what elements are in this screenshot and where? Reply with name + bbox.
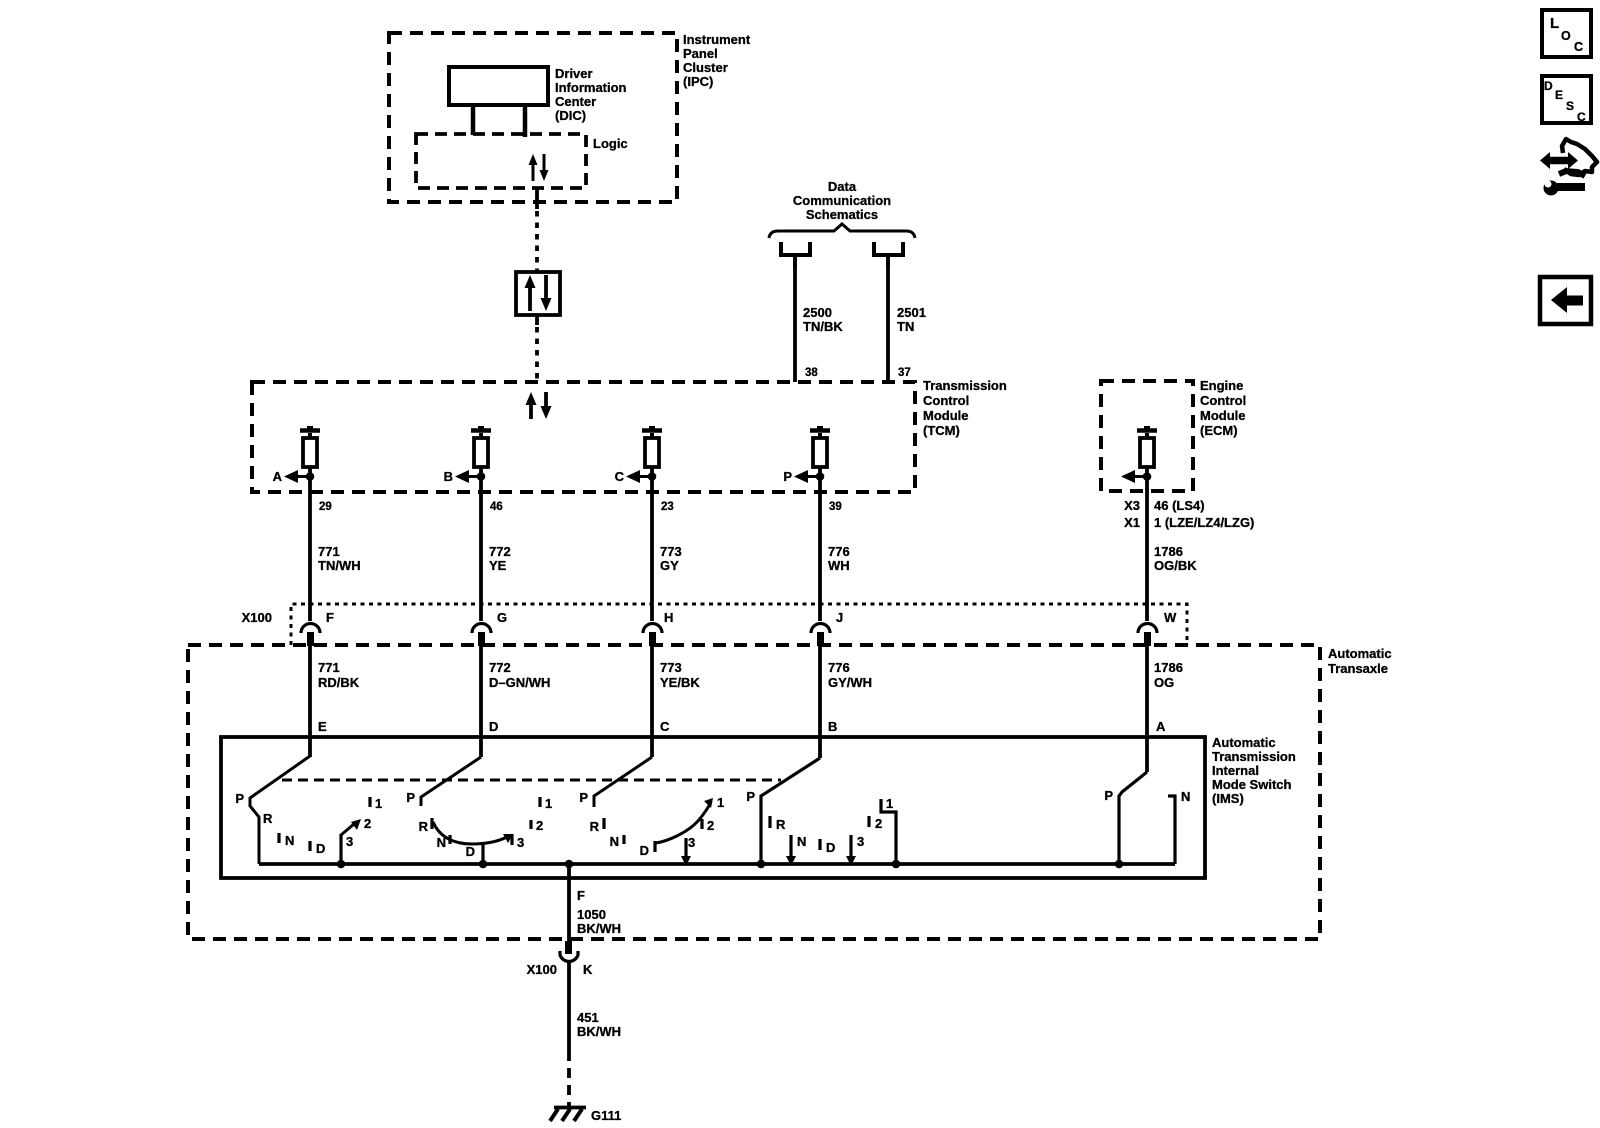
svg-text:D: D <box>1544 79 1553 93</box>
svg-text:TN/BK: TN/BK <box>803 319 843 334</box>
svg-text:46 (LS4): 46 (LS4) <box>1154 498 1205 513</box>
slice C contact N <box>622 835 625 844</box>
arrow to letter P <box>807 475 820 478</box>
svg-text:E: E <box>318 719 327 734</box>
svg-text:Module: Module <box>923 408 969 423</box>
svg-text:D: D <box>826 840 835 855</box>
svg-text:(DIC): (DIC) <box>555 108 586 123</box>
svg-text:N: N <box>437 835 446 850</box>
svg-text:772: 772 <box>489 544 511 559</box>
svg-text:GY: GY <box>660 558 679 573</box>
svg-text:1786: 1786 <box>1154 660 1183 675</box>
connector X100 pin G <box>472 624 491 634</box>
brace over data wires <box>769 224 915 238</box>
ECM: Engine Control Module dashed box <box>1101 381 1193 491</box>
wire 772 D-GN/WH from X100 G to IMS D <box>479 646 483 737</box>
wire 451 BK/WH <box>567 963 571 1051</box>
svg-text:Transmission: Transmission <box>1212 749 1296 764</box>
svg-text:771: 771 <box>318 660 340 675</box>
svg-text:Schematics: Schematics <box>806 207 878 222</box>
svg-text:BK/WH: BK/WH <box>577 921 621 936</box>
stub wire 2501 <box>886 255 890 268</box>
wire: solid stub below connector box <box>535 315 539 325</box>
svg-text:Mode Switch: Mode Switch <box>1212 777 1292 792</box>
IMS switch slice B: wire drop <box>818 737 822 758</box>
TCM pin driver B <box>478 426 484 430</box>
icon: schematic jump arrow with wrench <box>1540 139 1597 196</box>
wire 2501 TN to TCM pin 37 <box>886 268 890 382</box>
svg-text:(TCM): (TCM) <box>923 423 960 438</box>
svg-text:X100: X100 <box>242 610 272 625</box>
svg-text:A: A <box>273 469 283 484</box>
arrow at ECM pin <box>1134 475 1147 478</box>
svg-text:3: 3 <box>517 835 524 850</box>
wire 2500 TN/BK to TCM pin 38 <box>793 268 797 382</box>
svg-text:YE/BK: YE/BK <box>660 675 700 690</box>
wire 773 from pin C to X100 <box>650 467 654 621</box>
TCM pin driver P <box>817 426 823 430</box>
slice E contact D <box>308 841 311 851</box>
svg-text:C: C <box>660 719 670 734</box>
slice B contact N with leg to bus <box>789 835 792 858</box>
svg-text:Cluster: Cluster <box>683 60 728 75</box>
svg-text:Instrument: Instrument <box>683 32 751 47</box>
svg-text:X1: X1 <box>1124 515 1140 530</box>
svg-text:(IMS): (IMS) <box>1212 791 1244 806</box>
svg-text:N: N <box>1181 789 1190 804</box>
svg-text:P: P <box>579 790 588 805</box>
svg-text:RD/BK: RD/BK <box>318 675 360 690</box>
svg-text:GY/WH: GY/WH <box>828 675 872 690</box>
up arrow in Logic box <box>532 163 535 181</box>
ground G111 symbol <box>554 1106 586 1110</box>
svg-text:Engine: Engine <box>1200 378 1243 393</box>
slice E contact N <box>277 833 280 843</box>
Automatic Transaxle dashed box <box>188 645 1320 939</box>
svg-text:Driver: Driver <box>555 66 593 81</box>
slice B contact 1 leg to bus <box>881 799 896 864</box>
wire DIC leg left <box>471 105 476 135</box>
DIC: Driver Information Center box <box>449 67 548 105</box>
slice D leg to bus <box>481 843 484 864</box>
svg-text:J: J <box>836 610 843 625</box>
svg-text:29: 29 <box>319 501 332 513</box>
node on ECM wire <box>1143 472 1152 481</box>
svg-text:39: 39 <box>829 501 842 513</box>
wire 776 from pin P to X100 <box>818 467 822 621</box>
svg-text:776: 776 <box>828 544 850 559</box>
svg-text:D: D <box>640 843 649 858</box>
svg-text:3: 3 <box>346 834 353 849</box>
dashed wire to ground <box>567 1051 571 1106</box>
svg-text:P: P <box>783 469 792 484</box>
svg-text:2: 2 <box>875 816 882 831</box>
IMS switch slice A: wire drop <box>1145 737 1149 772</box>
svg-text:W: W <box>1164 610 1177 625</box>
svg-text:H: H <box>664 610 673 625</box>
svg-text:G: G <box>497 610 507 625</box>
TCM pin driver A <box>307 426 313 430</box>
slice A contact N with leg to bus <box>1168 796 1175 864</box>
svg-text:D: D <box>466 844 475 859</box>
svg-text:N: N <box>610 834 619 849</box>
slice D contact N <box>448 835 451 844</box>
IMS ground bus <box>259 862 1175 866</box>
slice E leg to bus <box>339 834 342 864</box>
arrow to letter A <box>297 475 310 478</box>
svg-text:C: C <box>1577 110 1586 124</box>
wire 771 from pin A to X100 <box>308 467 312 621</box>
svg-text:Transmission: Transmission <box>923 378 1007 393</box>
svg-text:Data: Data <box>828 179 857 194</box>
wire 771 RD/BK from X100 F to IMS E <box>308 646 312 737</box>
svg-text:O: O <box>1561 29 1571 43</box>
connector X100 pin K <box>565 941 572 954</box>
svg-text:(IPC): (IPC) <box>683 74 713 89</box>
node on wire B <box>477 472 486 481</box>
svg-text:772: 772 <box>489 660 511 675</box>
svg-text:P: P <box>406 790 415 805</box>
svg-text:D: D <box>489 719 498 734</box>
svg-text:2: 2 <box>364 816 371 831</box>
connector X100 pin W <box>1138 624 1157 634</box>
svg-text:Center: Center <box>555 94 596 109</box>
svg-text:S: S <box>1566 99 1574 113</box>
svg-text:2500: 2500 <box>803 305 832 320</box>
up arrow in connector box <box>528 287 532 311</box>
svg-text:38: 38 <box>805 367 818 379</box>
svg-text:Communication: Communication <box>793 193 891 208</box>
down arrow in Logic box <box>543 154 546 172</box>
svg-text:E: E <box>1555 88 1563 102</box>
svg-text:N: N <box>797 834 806 849</box>
svg-text:F: F <box>577 888 585 903</box>
slice B contact D <box>818 839 821 850</box>
svg-text:Automatic: Automatic <box>1212 735 1276 750</box>
IMS switch slice C: wire drop <box>650 737 654 757</box>
svg-text:2: 2 <box>536 818 543 833</box>
IMS: Automatic Transmission Internal Mode Switch box <box>221 737 1205 878</box>
svg-text:F: F <box>326 610 334 625</box>
svg-text:B: B <box>828 719 837 734</box>
svg-text:773: 773 <box>660 660 682 675</box>
svg-text:L: L <box>1550 15 1559 32</box>
svg-text:2: 2 <box>707 818 714 833</box>
svg-text:Control: Control <box>923 393 969 408</box>
svg-text:P: P <box>1104 788 1113 803</box>
icon: DESC box <box>1542 76 1591 123</box>
svg-text:X100: X100 <box>527 962 557 977</box>
connector X100 pin F <box>301 624 320 634</box>
connector X100 pin H <box>643 624 662 634</box>
arrow to letter C <box>639 475 652 478</box>
IMS switch slice D: wire drop <box>479 737 483 757</box>
svg-text:(ECM): (ECM) <box>1200 423 1238 438</box>
svg-text:A: A <box>1156 719 1166 734</box>
svg-text:1786: 1786 <box>1154 544 1183 559</box>
svg-text:1: 1 <box>886 796 893 811</box>
svg-text:Internal: Internal <box>1212 763 1259 778</box>
svg-text:R: R <box>263 811 273 826</box>
slice E contact 1 <box>368 797 371 807</box>
wire 776 GY/WH from X100 J to IMS B <box>818 646 822 737</box>
wire: dashed serial data link to TCM <box>535 327 539 382</box>
slice C leg to bus with arrow <box>684 838 687 858</box>
slice A wiper to P <box>1119 772 1147 864</box>
svg-text:R: R <box>419 819 429 834</box>
svg-text:YE: YE <box>489 558 507 573</box>
svg-text:451: 451 <box>577 1010 599 1025</box>
svg-text:Automatic: Automatic <box>1328 646 1392 661</box>
node: bus junction at F drop <box>565 860 574 869</box>
svg-text:771: 771 <box>318 544 340 559</box>
icon: back arrow box <box>1540 277 1591 324</box>
svg-text:3: 3 <box>688 835 695 850</box>
svg-text:1050: 1050 <box>577 907 606 922</box>
slice B wiper to P <box>761 758 820 864</box>
slice C wiper arc from D to 1 <box>656 802 711 843</box>
svg-text:1 (LZE/LZ4/LZG): 1 (LZE/LZ4/LZG) <box>1154 515 1254 530</box>
IMS switch slice E: wire drop <box>308 737 312 757</box>
down arrow inside TCM <box>544 392 548 407</box>
svg-text:Panel: Panel <box>683 46 718 61</box>
node on wire P <box>816 472 825 481</box>
svg-text:G111: G111 <box>591 1108 621 1123</box>
slice D wiper to P <box>421 757 481 806</box>
svg-text:TN: TN <box>897 319 914 334</box>
wire: dashed serial data link down <box>535 211 539 272</box>
svg-text:46: 46 <box>490 501 503 513</box>
svg-text:1: 1 <box>375 796 382 811</box>
wire 1786 from ECM to X100 <box>1145 467 1149 621</box>
node on wire C <box>648 472 657 481</box>
svg-text:Transaxle: Transaxle <box>1328 661 1388 676</box>
slice C wiper to P <box>594 757 652 807</box>
X100 inline connector dotted box <box>291 604 1187 645</box>
Logic dashed box <box>416 134 586 188</box>
svg-text:3: 3 <box>857 834 864 849</box>
wire 773 YE/BK from X100 H to IMS C <box>650 646 654 737</box>
svg-text:Information: Information <box>555 80 627 95</box>
svg-text:BK/WH: BK/WH <box>577 1024 621 1039</box>
svg-text:OG: OG <box>1154 675 1174 690</box>
svg-text:Control: Control <box>1200 393 1246 408</box>
svg-text:23: 23 <box>661 501 674 513</box>
wire DIC leg right <box>523 105 528 137</box>
TCM: Transmission Control Module dashed box <box>252 382 915 492</box>
slice D contact 3 <box>510 834 513 845</box>
slice D wiper arc from R to 3 <box>433 822 507 844</box>
icon: LOC box <box>1542 10 1591 57</box>
svg-text:OG/BK: OG/BK <box>1154 558 1197 573</box>
svg-text:776: 776 <box>828 660 850 675</box>
svg-text:D: D <box>316 841 325 856</box>
svg-text:1: 1 <box>545 796 552 811</box>
svg-text:Module: Module <box>1200 408 1246 423</box>
svg-text:P: P <box>235 791 244 806</box>
IPC: Instrument Panel Cluster dashed box <box>389 33 677 202</box>
slice E wiper to P <box>250 756 310 864</box>
arrow to letter B <box>468 475 481 478</box>
slice E contact 2 with pointer arm <box>341 824 354 835</box>
svg-text:R: R <box>776 817 786 832</box>
slice B contact 2 <box>867 816 870 827</box>
svg-text:WH: WH <box>828 558 850 573</box>
svg-text:TN/WH: TN/WH <box>318 558 361 573</box>
svg-text:B: B <box>444 469 453 484</box>
svg-text:Logic: Logic <box>593 136 628 151</box>
svg-text:D–GN/WH: D–GN/WH <box>489 675 550 690</box>
TCM pin driver C <box>649 426 655 430</box>
svg-text:R: R <box>590 819 600 834</box>
svg-text:P: P <box>746 789 755 804</box>
connector X100 pin J <box>811 624 830 634</box>
svg-text:C: C <box>615 469 625 484</box>
wire: solid stub below Logic box crossing IPC edge <box>535 188 539 209</box>
wire from bus through IMS pin F to transaxle edge <box>567 864 571 941</box>
serial data connector box with up/down arrows <box>516 272 560 315</box>
connector terminal 2501 (U shape) <box>874 242 903 255</box>
svg-text:K: K <box>583 962 593 977</box>
up arrow inside TCM <box>529 404 533 419</box>
svg-text:37: 37 <box>898 367 911 379</box>
stub wire 2500 <box>793 255 797 268</box>
svg-text:2501: 2501 <box>897 305 926 320</box>
svg-text:C: C <box>1574 40 1583 54</box>
slice B contact 3 with leg to bus <box>849 835 852 858</box>
connector terminal 2500 (U shape) <box>781 242 810 255</box>
wire 1786 OG from X100 W to IMS A <box>1145 646 1149 737</box>
down arrow in connector box <box>544 275 548 299</box>
svg-text:773: 773 <box>660 544 682 559</box>
dashed line inside IMS <box>282 779 781 782</box>
slice B contact R <box>768 816 771 828</box>
wire 772 from pin B to X100 <box>479 467 483 621</box>
svg-text:1: 1 <box>717 795 724 810</box>
node on wire A <box>306 472 315 481</box>
slice C contact 2 <box>700 819 703 829</box>
svg-text:N: N <box>285 833 294 848</box>
svg-text:X3: X3 <box>1124 498 1140 513</box>
slice D contact 1 <box>538 797 541 807</box>
slice D contact 2 <box>529 820 532 829</box>
ECM pin driver <box>1144 426 1150 430</box>
